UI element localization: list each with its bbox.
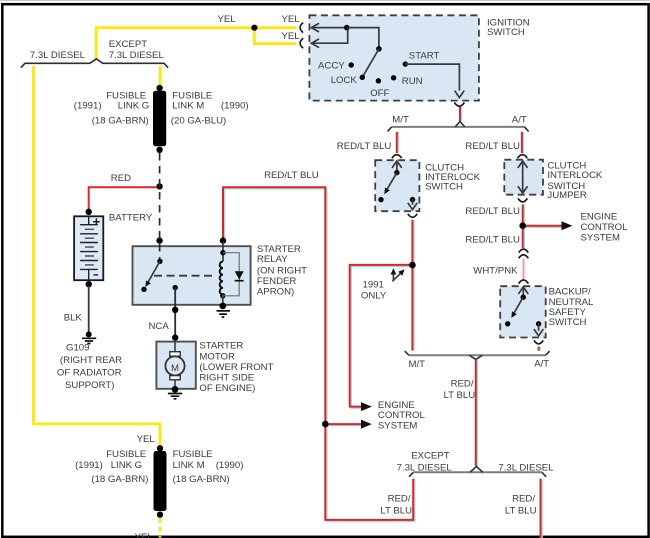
backup switch output contact with down arrow (534, 321, 543, 336)
label 7.3L DIESEL left (30, 50, 86, 61)
node 1991-only junction (409, 262, 416, 269)
ignition pin1 arrow (311, 24, 347, 32)
svg-text:LT BLU: LT BLU (444, 390, 476, 401)
connector above clutch interlock switch jumper (518, 155, 528, 159)
1991 only pointer arrows (391, 268, 405, 281)
brace 7.3L DIESEL / EXCEPT split (21, 59, 168, 68)
label ENGINE CONTROL SYSTEM right (581, 212, 629, 244)
label CLUTCH INTERLOCK SWITCH (425, 162, 481, 192)
node motor ground (172, 386, 179, 393)
wire tap to engine control system bottom (325, 420, 372, 429)
clutch switch output contact with down arrow (408, 197, 417, 210)
svg-text:(1991): (1991) (74, 101, 102, 112)
svg-text:EXCEPT: EXCEPT (109, 39, 148, 50)
label M/T (392, 114, 409, 125)
wire RED/LT BLU M/T split to clutch switch (397, 132, 399, 153)
node coil top (220, 250, 225, 255)
svg-text:(ON RIGHT: (ON RIGHT (257, 265, 307, 276)
svg-text:7.3L DIESEL: 7.3L DIESEL (30, 50, 86, 61)
label A/T (512, 114, 527, 125)
svg-text:RED/LT BLU: RED/LT BLU (465, 206, 520, 217)
svg-text:SUPPORT): SUPPORT) (65, 380, 114, 391)
svg-text:RED/LT BLU: RED/LT BLU (465, 234, 520, 245)
wire RED stub backup switch to A/T merge (539, 347, 541, 351)
svg-text:ACCY: ACCY (318, 61, 345, 72)
label CLUTCH INTERLOCK SWITCH JUMPER (547, 160, 603, 201)
wire RED/LT BLU A/T split to jumper (522, 132, 524, 153)
svg-text:1991: 1991 (363, 280, 384, 291)
svg-text:APRON): APRON) (257, 287, 294, 298)
inline connector RED/LT BLU to WHT/PNK (519, 249, 529, 258)
starter motor box (156, 342, 195, 389)
svg-text:(1990): (1990) (221, 101, 249, 112)
svg-text:LINK G: LINK G (111, 460, 142, 471)
connector at ignition switch pin 2 (300, 38, 303, 48)
svg-text:(RIGHT REAR: (RIGHT REAR (60, 355, 122, 366)
label RED/ LT BLU bottom right branch (505, 493, 537, 516)
svg-text:YEL: YEL (218, 14, 237, 25)
svg-text:RIGHT SIDE: RIGHT SIDE (199, 373, 254, 384)
svg-text:(18 GA-BRN): (18 GA-BRN) (92, 116, 149, 127)
node engine control tap (519, 222, 526, 229)
label YEL main (218, 14, 237, 25)
ignition switch box U1 (309, 15, 479, 100)
svg-text:RUN: RUN (402, 76, 423, 87)
wire RED/LT BLU 1991 tap to engine control (350, 265, 413, 411)
svg-text:M/T: M/T (392, 114, 409, 125)
brace EXCEPT / 7.3L DIESEL split (409, 466, 546, 476)
wire RED/LT BLU relay coil to except-diesel branch (223, 187, 415, 521)
svg-text:RED/LT BLU: RED/LT BLU (465, 141, 520, 152)
svg-text:7.3L DIESEL: 7.3L DIESEL (397, 463, 453, 474)
svg-text:RED/: RED/ (388, 493, 411, 504)
battery box (74, 216, 103, 280)
label G109 (RIGHT REAR OF RADIATOR SUPPORT) (57, 342, 122, 391)
svg-text:(1991): (1991) (75, 460, 103, 471)
wire RED/LT BLU ignition to M/T-A/T split (460, 107, 462, 121)
wire YEL left diesel branch (34, 66, 161, 449)
svg-text:ONLY: ONLY (361, 291, 387, 302)
svg-text:(LOWER FRONT: (LOWER FRONT (199, 362, 273, 373)
clutch switch entry arrow (392, 161, 401, 173)
relay NO contact (173, 285, 178, 290)
svg-text:7.3L DIESEL: 7.3L DIESEL (109, 50, 165, 61)
svg-text:(18 GA-BRN): (18 GA-BRN) (173, 474, 230, 485)
wire YEL branch to second ignition pin (254, 28, 296, 44)
ground starter motor (168, 394, 182, 399)
label A/T merge (534, 359, 549, 370)
svg-text:RED/: RED/ (451, 378, 474, 389)
svg-text:RELAY: RELAY (257, 254, 288, 265)
backup switch entry arrow (519, 287, 528, 297)
svg-text:YEL: YEL (282, 14, 301, 25)
label ENGINE CONTROL SYSTEM left (378, 400, 426, 432)
svg-text:INTERLOCK: INTERLOCK (547, 170, 603, 181)
fusible link G top node (157, 445, 163, 451)
relay switch lever (145, 261, 160, 287)
wire RED/LT BLU merge to diesel split (476, 360, 478, 466)
label 7.3L DIESEL bottom right (498, 463, 554, 474)
label YEL pin2 (282, 31, 301, 42)
clutch interlock switch box (375, 160, 419, 211)
node ignition feed (344, 25, 350, 31)
battery plus (93, 218, 100, 225)
svg-text:FENDER: FENDER (257, 276, 297, 287)
svg-text:EXCEPT: EXCEPT (411, 451, 450, 462)
svg-text:SWITCH: SWITCH (425, 182, 463, 193)
svg-text:A/T: A/T (534, 359, 549, 370)
svg-text:FUSIBLE: FUSIBLE (173, 449, 213, 460)
fusible link M top: node upper (156, 85, 162, 91)
wire RED/LT BLU clutch switch to M/T merge (412, 220, 414, 351)
connector above backup/neutral safety switch (519, 280, 529, 284)
label BACKUP/NEUTRAL SAFETY SWITCH (549, 287, 594, 328)
ground G109 (82, 331, 96, 343)
svg-text:G109: G109 (66, 342, 89, 353)
battery minus (94, 274, 98, 276)
node coil bottom (220, 293, 225, 298)
wire tap to engine control system right (523, 221, 573, 230)
svg-text:YEL: YEL (135, 532, 154, 538)
contact OFF (370, 78, 389, 99)
svg-text:OF RADIATOR: OF RADIATOR (57, 368, 122, 379)
label RED/ LT BLU bottom left branch (380, 493, 412, 516)
backup/neutral safety switch box (500, 286, 546, 337)
label YEL bottom (135, 532, 154, 538)
svg-text:YEL: YEL (137, 434, 156, 445)
label FUSIBLE LINK M (1990) (18 GA-BRN) bottom (173, 449, 244, 485)
node relay switch input (156, 237, 162, 243)
node battery negative (86, 281, 92, 287)
node NCA lower (172, 334, 178, 340)
wire ignition feed to pivot (347, 28, 379, 49)
label BLK (64, 312, 83, 323)
wire RED/LT BLU 7.3L diesel branch to bottom edge (541, 479, 543, 538)
relay switch pivot (157, 259, 162, 264)
clutch switch lever (384, 173, 397, 195)
brace M/T A/T merge (405, 351, 550, 359)
svg-text:(20 GA-BLU): (20 GA-BLU) (171, 116, 226, 127)
svg-text:BLK: BLK (64, 312, 83, 323)
relay mechanical link dashed (154, 275, 216, 277)
label RED/LT BLU merged (444, 378, 476, 401)
relay coil wire top (222, 242, 224, 262)
ground relay case (217, 311, 230, 317)
svg-text:RED: RED (111, 173, 131, 184)
clutch interlock switch jumper box (504, 160, 543, 195)
clutch switch pivot (394, 170, 399, 175)
ignition rotor pivot (376, 46, 382, 52)
label RED (111, 173, 131, 184)
svg-text:LT BLU: LT BLU (505, 506, 537, 517)
svg-text:SYSTEM: SYSTEM (378, 420, 417, 431)
connector below backup switch (534, 340, 543, 344)
label EXCEPT 7.3L DIESEL bottom (397, 451, 453, 474)
label STARTER RELAY (ON RIGHT FENDER APRON) (257, 244, 307, 298)
label NCA (149, 321, 170, 332)
svg-text:LINK G: LINK G (118, 101, 149, 112)
starter relay box (133, 246, 251, 305)
wire START output with down arrow (405, 64, 464, 98)
label FUSIBLE LINK G (1991) (18 GA-BRN) bottom (75, 449, 148, 485)
wire WHT/PNK (522, 259, 524, 280)
contact START (403, 50, 440, 66)
node YEL junction (251, 25, 257, 31)
label STARTER MOTOR (LOWER FRONT RIGHT SIDE OF ENGINE) (199, 341, 273, 394)
relay NC contact (141, 287, 146, 292)
battery plates (80, 216, 98, 280)
svg-text:LINK M: LINK M (172, 101, 204, 112)
svg-text:OF ENGINE): OF ENGINE) (199, 383, 255, 394)
svg-text:LINK M: LINK M (173, 460, 205, 471)
svg-text:M/T: M/T (409, 359, 426, 370)
label RED/LT BLU M/T branch (337, 141, 392, 152)
svg-text:OFF: OFF (370, 88, 389, 99)
label 1991 ONLY (361, 280, 387, 302)
label WHT/PNK (473, 266, 518, 277)
svg-text:RED/LT BLU: RED/LT BLU (337, 141, 392, 152)
wire RED battery to junction (89, 187, 160, 211)
wire YEL from diesel-split up to ignition feed (96, 28, 296, 61)
svg-text:SYSTEM: SYSTEM (581, 233, 620, 244)
label RED/LT BLU A/T branch (465, 141, 520, 152)
label IGNITION SWITCH (487, 17, 530, 37)
svg-text:JUMPER: JUMPER (547, 190, 587, 201)
svg-text:BATTERY: BATTERY (109, 213, 153, 224)
svg-text:(1990): (1990) (216, 460, 244, 471)
clutch switch NC contact (378, 197, 383, 202)
node NCA upper (172, 307, 178, 313)
label YEL pin1 (282, 14, 301, 25)
svg-text:RED/: RED/ (512, 493, 535, 504)
node relay case ground (219, 303, 226, 310)
backup switch pivot (521, 295, 526, 300)
svg-text:ENGINE: ENGINE (581, 212, 618, 223)
svg-text:M: M (171, 363, 179, 374)
svg-text:WHT/PNK: WHT/PNK (473, 266, 518, 277)
fusible link G (1991) body (154, 451, 167, 511)
contact RUN (391, 75, 423, 87)
coil bottom to case (222, 295, 224, 305)
contact LOCK (331, 75, 365, 86)
ignition pin2 arrow (311, 28, 347, 48)
connector below jumper (518, 198, 527, 202)
fusible link M (1990) body (153, 91, 166, 146)
contact ACCY (318, 61, 354, 72)
svg-text:SWITCH: SWITCH (487, 27, 525, 38)
fusible link M bottom node (156, 147, 162, 153)
label BATTERY (109, 213, 153, 224)
wire BLK battery to ground (88, 286, 90, 332)
svg-text:MOTOR: MOTOR (199, 351, 235, 362)
wire relay output NCA to starter motor (174, 288, 176, 342)
label FUSIBLE LINK G (1991) (18 GA-BRN) (74, 90, 149, 126)
label YEL above fusible link G (137, 434, 156, 445)
svg-text:STARTER: STARTER (199, 341, 243, 352)
connector below clutch interlock switch (408, 214, 417, 218)
label EXCEPT 7.3L DIESEL (109, 39, 165, 61)
svg-text:SWITCH: SWITCH (549, 317, 587, 328)
svg-text:(18 GA-BRN): (18 GA-BRN) (91, 474, 148, 485)
svg-text:START: START (409, 50, 440, 61)
svg-text:NCA: NCA (149, 321, 170, 332)
wire RED/LT BLU jumper to inline connector (523, 204, 525, 248)
node relay coil input (220, 237, 226, 243)
motor M1 internals (165, 342, 184, 389)
connector at ignition switch pin 1 (300, 23, 303, 33)
svg-text:FUSIBLE: FUSIBLE (106, 449, 146, 460)
label M/T merge (409, 359, 426, 370)
backup switch lever (511, 297, 523, 318)
wire dashed fusible link to relay pivot (159, 153, 161, 260)
label RED/LT BLU relay coil (264, 170, 319, 181)
fusible link G bottom node (157, 511, 163, 517)
svg-text:LOCK: LOCK (331, 75, 358, 86)
jumper double-ended arrow (518, 161, 527, 193)
node battery feed junction (156, 183, 162, 189)
ignition rotor lever to LOCK (362, 49, 379, 77)
node battery positive (86, 209, 92, 215)
wire YEL stub to fusible link M (159, 66, 162, 88)
svg-text:A/T: A/T (512, 114, 527, 125)
backup switch NC contact (505, 321, 510, 326)
label RED/LT BLU above inline connector (465, 234, 520, 245)
label FUSIBLE LINK M (1990) (20 GA-BLU) (171, 90, 249, 126)
connector above clutch interlock switch (392, 155, 402, 159)
svg-text:YEL: YEL (282, 31, 301, 42)
relay coil L1 (220, 262, 223, 295)
svg-text:RED/LT BLU: RED/LT BLU (264, 170, 319, 181)
wire YEL dashed below fusible link G (159, 518, 162, 538)
brace M/T A/T split (388, 122, 529, 132)
svg-text:LT BLU: LT BLU (380, 506, 412, 517)
label RED/LT BLU below jumper (465, 206, 520, 217)
node engine control tap bottom (322, 421, 329, 428)
diode D1 branch (223, 253, 244, 296)
svg-text:7.3L DIESEL: 7.3L DIESEL (498, 463, 554, 474)
svg-text:CONTROL: CONTROL (581, 222, 629, 233)
connector below ignition switch (454, 103, 464, 107)
